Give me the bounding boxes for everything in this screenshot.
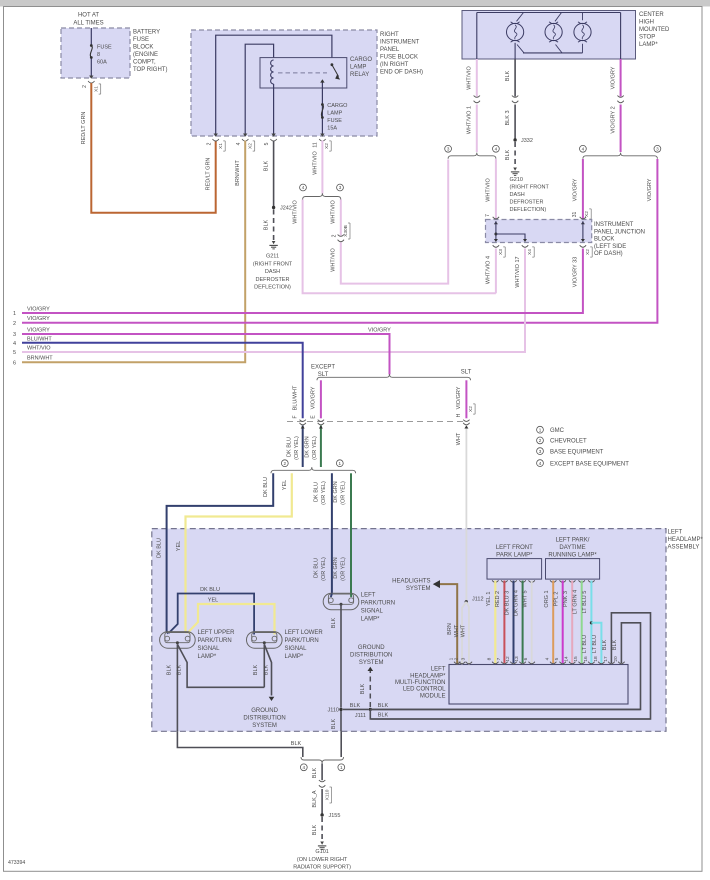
svg-text:HEADLAMP*: HEADLAMP* xyxy=(410,673,446,679)
svg-text:DISTRIBUTION: DISTRIBUTION xyxy=(243,716,285,722)
wire WHT/VIO below conn xyxy=(476,105,478,153)
split brace CHMSL VIO/GRY xyxy=(583,153,658,159)
junction J155 xyxy=(320,813,340,819)
wire RED/LT GRN xyxy=(91,83,215,213)
label BLK dashed gds xyxy=(360,683,366,694)
svg-text:LEFT: LEFT xyxy=(361,593,376,599)
svg-text:1: 1 xyxy=(340,765,343,770)
label DK GRN (OR YEL) xyxy=(305,436,318,460)
svg-text:BLK: BLK xyxy=(166,664,172,675)
svg-text:(RIGHT FRONT: (RIGHT FRONT xyxy=(510,185,550,191)
label BRN xyxy=(447,623,453,635)
label CARGO LAMP FUSE 15A xyxy=(327,103,348,132)
svg-text:X2: X2 xyxy=(468,406,474,412)
svg-text:GMC: GMC xyxy=(550,428,565,434)
label VIO/GRY row2wire xyxy=(647,178,653,201)
row 2 label VIO/GRY xyxy=(27,316,50,322)
legend 3 BASE EQUIPMENT xyxy=(537,448,604,456)
svg-text:CARGO: CARGO xyxy=(327,103,348,109)
wire DK BLU chev xyxy=(167,473,274,631)
wire BLK dashed to G211 xyxy=(273,210,275,241)
split brace pin11 xyxy=(303,193,341,199)
svg-text:X30B: X30B xyxy=(343,225,349,237)
wire DK BLU to lamp3 xyxy=(331,594,332,598)
svg-text:LT BLU 5: LT BLU 5 xyxy=(582,591,588,614)
svg-text:FUSE: FUSE xyxy=(133,37,149,43)
svg-text:3: 3 xyxy=(460,657,466,660)
pin label 2 / X1 xyxy=(82,84,101,94)
svg-text:BLK: BLK xyxy=(253,664,259,675)
svg-text:X4: X4 xyxy=(527,249,533,255)
svg-text:F: F xyxy=(293,415,299,418)
svg-text:X110: X110 xyxy=(324,789,330,800)
svg-text:RADIATOR SUPPORT): RADIATOR SUPPORT) xyxy=(293,864,351,870)
wire WHT below H xyxy=(464,426,468,602)
row 1 number xyxy=(13,311,16,317)
label LEFT UPPER PARK/TURN SIGNAL LAMP xyxy=(198,630,236,660)
wire WHT/VIO 4 from jb xyxy=(495,249,497,294)
svg-text:ALL TIMES: ALL TIMES xyxy=(73,21,103,27)
svg-text:DK BLU: DK BLU xyxy=(313,558,319,578)
svg-text:2: 2 xyxy=(331,234,337,237)
label G101 xyxy=(293,849,351,870)
label VIO/GRY H xyxy=(456,386,475,417)
svg-text:(OR YEL): (OR YEL) xyxy=(340,481,346,505)
pin 31 labels xyxy=(572,209,591,219)
label DK BLU inbox xyxy=(156,538,162,558)
label PNK 3 xyxy=(563,591,569,607)
wire LT BLU branch 18 xyxy=(591,623,601,663)
wire YEL chev xyxy=(186,473,292,631)
svg-text:BLK: BLK xyxy=(312,767,318,778)
svg-text:7: 7 xyxy=(496,657,502,660)
svg-text:(IN RIGHT: (IN RIGHT xyxy=(380,62,409,68)
svg-text:14: 14 xyxy=(564,656,570,662)
CHMSL right drop xyxy=(620,13,622,60)
svg-text:DEFROSTER: DEFROSTER xyxy=(510,200,544,206)
svg-text:INSTRUMENT: INSTRUMENT xyxy=(380,40,420,46)
svg-text:LT BLU: LT BLU xyxy=(592,635,598,653)
equip marker 3 left xyxy=(445,145,452,152)
wire BLK to X110 xyxy=(321,763,323,780)
row 4 number xyxy=(13,341,16,347)
label CENTER HIGH MOUNTED STOP LAMP xyxy=(639,12,670,48)
jb internal wire left xyxy=(494,221,497,241)
svg-text:60A: 60A xyxy=(97,60,107,66)
equip marker 3 xyxy=(337,184,344,191)
label J111 xyxy=(355,713,366,719)
label GROUND DISTRIBUTION SYSTEM module xyxy=(350,645,392,666)
wire YEL branch xyxy=(188,604,275,635)
junction LT BLU split xyxy=(590,621,593,624)
svg-text:PARK LAMP*: PARK LAMP* xyxy=(496,553,533,559)
svg-text:BLK: BLK xyxy=(378,713,389,719)
svg-text:J111: J111 xyxy=(355,713,366,719)
label LEFT HEADLAMP ASSEMBLY xyxy=(668,530,704,551)
svg-text:18: 18 xyxy=(593,656,599,662)
svg-text:FUSE: FUSE xyxy=(327,118,342,124)
label WHT/VIO 1 xyxy=(467,106,473,134)
merge brace ground xyxy=(301,757,344,763)
svg-text:DASH: DASH xyxy=(265,269,280,275)
wire PNK drl xyxy=(571,581,573,664)
row 5 number xyxy=(13,350,16,356)
bulb 2 xyxy=(545,22,562,42)
svg-text:WHT/VIO: WHT/VIO xyxy=(486,178,492,202)
park lamp pin cups xyxy=(492,580,535,582)
CHMSL top bus xyxy=(477,12,621,14)
wire VIO/GRY from CHMSL xyxy=(620,59,622,97)
wire BRN to headlights system xyxy=(433,580,457,664)
svg-text:H: H xyxy=(456,413,462,417)
wire fuse feed xyxy=(90,28,92,77)
svg-text:(OR YEL): (OR YEL) xyxy=(294,436,300,460)
svg-text:4: 4 xyxy=(545,657,551,660)
svg-text:OF DASH): OF DASH) xyxy=(594,251,623,257)
label GROUND DISTRIBUTION SYSTEM lamps xyxy=(243,708,285,729)
svg-text:DK BLU: DK BLU xyxy=(287,437,293,457)
svg-text:BLK: BLK xyxy=(602,639,608,650)
svg-text:3: 3 xyxy=(447,147,450,152)
svg-text:4: 4 xyxy=(302,185,305,190)
svg-text:VIO/GRY: VIO/GRY xyxy=(368,327,391,333)
split brace equipment xyxy=(271,467,356,473)
svg-text:YEL 1: YEL 1 xyxy=(486,592,492,607)
row 3 label VIO/GRY xyxy=(27,328,50,334)
wire VIO/GRY to junction block xyxy=(582,159,584,219)
svg-text:WHT/VIO: WHT/VIO xyxy=(331,200,337,224)
svg-text:2: 2 xyxy=(284,461,287,466)
svg-text:17: 17 xyxy=(603,656,609,662)
wire row3 VIO/GRY xyxy=(22,334,390,375)
svg-text:8: 8 xyxy=(97,52,100,58)
ground G210 xyxy=(511,168,519,176)
svg-text:VIO/GRY: VIO/GRY xyxy=(27,307,50,313)
svg-text:SLT: SLT xyxy=(461,369,472,375)
equip marker 4 gnd xyxy=(300,764,307,771)
svg-text:VIO/GRY: VIO/GRY xyxy=(27,328,50,334)
svg-text:CARGO: CARGO xyxy=(350,57,372,63)
pin 2 labels xyxy=(207,141,226,151)
svg-text:BASE EQUIPMENT: BASE EQUIPMENT xyxy=(550,449,604,455)
svg-text:HOT AT: HOT AT xyxy=(78,13,99,19)
svg-text:TOP RIGHT): TOP RIGHT) xyxy=(133,67,167,73)
svg-text:J110: J110 xyxy=(327,707,339,713)
svg-text:RIGHT: RIGHT xyxy=(380,32,399,38)
pin 7 label xyxy=(485,214,491,217)
svg-text:G101: G101 xyxy=(315,849,328,855)
svg-text:473394: 473394 xyxy=(8,860,25,866)
wire DK GRN to lamp3 xyxy=(350,594,352,598)
svg-text:LT BLU: LT BLU xyxy=(582,635,588,653)
svg-text:X2: X2 xyxy=(584,211,590,217)
label FUSE 8 60A xyxy=(97,45,112,66)
svg-text:VIO/GRY: VIO/GRY xyxy=(27,316,50,322)
svg-text:15A: 15A xyxy=(327,126,337,132)
drl pin cups xyxy=(550,580,595,582)
svg-text:4: 4 xyxy=(13,341,16,347)
svg-text:BLOCK: BLOCK xyxy=(133,45,153,51)
svg-text:3: 3 xyxy=(539,449,542,454)
connector H xyxy=(463,420,469,425)
svg-text:LAMP*: LAMP* xyxy=(198,654,217,660)
wire BLK lamp2 branch xyxy=(264,644,274,701)
svg-text:BLK: BLK xyxy=(177,664,183,675)
wire DK BLU (OR YEL) gmc xyxy=(331,473,333,593)
label BLK lower xyxy=(378,713,389,719)
jb internal branch xyxy=(496,234,525,241)
svg-text:DK BLU: DK BLU xyxy=(313,482,319,502)
connector X110 xyxy=(312,780,332,807)
connector CHMSL pin1 xyxy=(474,96,480,103)
wire BLK to J242 xyxy=(273,141,275,208)
label DK BLU (OR YEL) gmc2 xyxy=(313,557,327,581)
pin 2 exit xyxy=(213,134,219,142)
module pin numbers xyxy=(449,656,619,662)
label SLT xyxy=(461,369,472,375)
wire RED park xyxy=(503,581,505,664)
connector CHMSL pin2 xyxy=(617,96,623,103)
label BLK 3 xyxy=(505,111,511,126)
label WHT/VIO 17 xyxy=(515,256,521,287)
row 6 label BRN/WHT xyxy=(27,356,53,362)
wire BLK node to pin20 loop xyxy=(370,708,640,710)
wire BLK J110 to splice xyxy=(340,731,342,757)
left park/daytime running lamp box xyxy=(546,559,600,580)
label BLK lamp3 xyxy=(331,617,337,628)
label DK GRN 4 xyxy=(513,590,519,616)
wire LT BLU drl xyxy=(590,581,592,664)
label LT BLU 18 xyxy=(592,635,598,653)
svg-text:COMPT,: COMPT, xyxy=(133,60,156,66)
svg-text:DISTRIBUTION: DISTRIBUTION xyxy=(350,653,392,659)
svg-text:J155: J155 xyxy=(329,813,341,819)
relay switch blade xyxy=(331,63,341,79)
label LEFT PARK/ DAYTIME RUNNING LAMP xyxy=(548,538,597,559)
svg-text:DEFLECTION): DEFLECTION) xyxy=(254,285,291,291)
label DK GRN (OR YEL) gmc xyxy=(333,481,347,505)
label DK BLU 3 xyxy=(504,591,510,615)
wire DK BLU branch xyxy=(169,594,254,635)
jb internal wire right xyxy=(582,221,584,241)
wire row4 BLU/WHT xyxy=(22,343,303,419)
label WHT/VIO branch4 xyxy=(292,200,298,224)
legend 2 CHEVROLET xyxy=(537,437,587,445)
svg-text:BLK: BLK xyxy=(350,703,361,709)
right IP fuse block box xyxy=(191,30,377,136)
pin 11 labels xyxy=(313,141,332,151)
label WHT pin2 xyxy=(454,624,460,637)
label G210 xyxy=(510,177,550,213)
label LT BLU 5 xyxy=(582,591,588,614)
wire WHT to pin3 xyxy=(466,602,469,665)
pin 5 exit xyxy=(270,134,276,142)
wire WHT/VIO branch 3 upper xyxy=(340,200,342,236)
svg-text:8: 8 xyxy=(487,657,493,660)
svg-text:X2: X2 xyxy=(585,249,591,255)
svg-text:BLK_A: BLK_A xyxy=(312,790,318,807)
svg-text:BLOCK: BLOCK xyxy=(594,237,614,243)
wire VIO/GRY H xyxy=(465,380,467,418)
label INSTRUMENT PANEL JUNCTION BLOCK xyxy=(594,222,645,257)
label BLK xyxy=(264,160,270,171)
svg-text:HEADLIGHTS: HEADLIGHTS xyxy=(392,579,430,585)
svg-text:BLK: BLK xyxy=(505,70,511,81)
svg-text:BLU/WHT: BLU/WHT xyxy=(293,385,299,410)
label G211 xyxy=(253,254,293,291)
bulb 2 taps xyxy=(555,13,562,53)
legend 4 EXCEPT BASE EQUIPMENT xyxy=(537,460,630,468)
svg-text:BLK: BLK xyxy=(505,149,511,160)
svg-text:BLK: BLK xyxy=(291,741,302,747)
label VIO/GRY jb xyxy=(573,178,579,201)
svg-text:1: 1 xyxy=(539,427,542,432)
svg-text:PARK/TURN: PARK/TURN xyxy=(198,638,232,644)
svg-text:X2: X2 xyxy=(248,143,254,149)
wire WHT/VIO branch 3 lower xyxy=(341,160,448,284)
wire VIO/GRY E xyxy=(320,380,322,418)
svg-text:DK BLU: DK BLU xyxy=(200,587,220,593)
label BLK 17 xyxy=(602,639,608,650)
svg-text:RELAY: RELAY xyxy=(350,72,369,78)
label DK GRN (OR YEL) gmc2 xyxy=(333,557,347,581)
label BLK chmsl xyxy=(505,70,511,81)
svg-text:5: 5 xyxy=(13,350,16,356)
svg-text:BLK: BLK xyxy=(264,664,270,675)
instrument panel junction block box xyxy=(486,220,592,243)
bulb 1 taps xyxy=(515,13,524,60)
wire YEL to lamp1 xyxy=(186,632,187,634)
svg-text:7: 7 xyxy=(485,214,491,217)
wire pin4 to relay coil xyxy=(245,44,273,136)
svg-text:WHT/VIO 17: WHT/VIO 17 xyxy=(515,256,521,287)
wire BLK below J110 xyxy=(340,711,342,731)
label ORG 1 xyxy=(544,590,550,607)
svg-text:(RIGHT FRONT: (RIGHT FRONT xyxy=(253,261,293,267)
CHMSL left drop xyxy=(476,13,478,60)
svg-text:PANEL JUNCTION: PANEL JUNCTION xyxy=(594,229,645,235)
svg-text:ORG 1: ORG 1 xyxy=(544,590,550,607)
svg-text:LEFT UPPER: LEFT UPPER xyxy=(198,630,236,636)
svg-text:INSTRUMENT: INSTRUMENT xyxy=(594,222,634,228)
junction J110 xyxy=(327,707,342,713)
svg-text:G211: G211 xyxy=(266,254,279,260)
wire DK GRN (OR YEL) below E xyxy=(319,426,323,468)
svg-text:VIO/GRY: VIO/GRY xyxy=(311,386,317,409)
svg-text:4: 4 xyxy=(303,765,306,770)
svg-text:DEFROSTER: DEFROSTER xyxy=(256,277,290,283)
svg-text:4: 4 xyxy=(495,147,498,152)
label LEFT HEADLAMP MULTI-FUNCTION LED CONTROL MODULE xyxy=(395,667,446,700)
label RIGHT INSTRUMENT PANEL FUSE BLOCK xyxy=(380,32,423,76)
svg-text:WHT/VIO: WHT/VIO xyxy=(467,66,473,90)
svg-text:ASSEMBLY: ASSEMBLY xyxy=(668,545,700,551)
row 4 label BLU/WHT xyxy=(27,336,52,342)
svg-text:VIO/GRY: VIO/GRY xyxy=(573,178,579,201)
svg-text:YEL: YEL xyxy=(208,598,218,604)
wire BLK node to pin17 loop xyxy=(370,709,650,719)
label BLK j110 xyxy=(350,703,361,709)
CHMSL box xyxy=(462,11,636,60)
svg-text:31: 31 xyxy=(572,212,578,218)
split brace SLT xyxy=(317,374,471,380)
wire BLK dashed to G210 xyxy=(514,142,516,167)
row 6 number xyxy=(13,360,16,366)
wire WHT/VIO branch 4 xyxy=(303,200,496,294)
label LT GRN 4 xyxy=(573,590,579,614)
svg-text:BLK: BLK xyxy=(312,824,318,835)
wire J110 to J111 node xyxy=(343,708,369,710)
svg-text:RED 2: RED 2 xyxy=(495,591,501,607)
svg-text:BLK: BLK xyxy=(331,718,337,729)
svg-text:YEL: YEL xyxy=(282,480,288,490)
left park/turn signal lamp xyxy=(323,593,359,610)
jb entry pin7 xyxy=(493,217,499,224)
label VIO/GRY 33 xyxy=(573,257,579,287)
bulb 3 taps xyxy=(582,13,584,53)
label BLK lamp1 main xyxy=(166,664,172,675)
fuse F8 60A xyxy=(90,44,93,59)
label RED 2 xyxy=(495,591,501,607)
connector CHMSL pin3 xyxy=(512,96,518,103)
jb exit arrows xyxy=(494,239,585,242)
page number 473394 xyxy=(8,860,25,866)
svg-text:PARK/TURN: PARK/TURN xyxy=(361,601,395,607)
equip marker 4 xyxy=(300,184,307,191)
svg-text:G210: G210 xyxy=(510,177,523,183)
svg-text:BATTERY: BATTERY xyxy=(133,30,160,36)
svg-text:END OF DASH): END OF DASH) xyxy=(380,70,423,76)
row 2 number xyxy=(13,321,16,327)
wire WHT park xyxy=(531,581,533,664)
label RED/LT GRN left xyxy=(81,112,87,145)
label BLK below J110 xyxy=(331,718,337,729)
svg-text:LAMP*: LAMP* xyxy=(361,617,380,623)
svg-text:15: 15 xyxy=(573,656,579,662)
bulb 3 xyxy=(574,22,591,42)
relay coil xyxy=(271,60,274,84)
left upper park/turn signal lamp xyxy=(160,632,196,649)
svg-text:LED CONTROL: LED CONTROL xyxy=(403,687,446,693)
svg-text:LEFT: LEFT xyxy=(431,667,446,673)
svg-text:VIO/GRY 2: VIO/GRY 2 xyxy=(610,106,616,133)
svg-text:LEFT PARK/: LEFT PARK/ xyxy=(556,538,590,544)
svg-text:YEL: YEL xyxy=(176,541,182,551)
label DK BLU (OR YEL) xyxy=(287,436,300,460)
svg-text:1: 1 xyxy=(339,461,342,466)
wire BLK pin20 loop xyxy=(372,623,641,710)
wire BLK lamp3 xyxy=(340,604,342,707)
svg-text:PPL 2: PPL 2 xyxy=(554,592,560,607)
junction node xyxy=(369,708,372,711)
wire BRN/WHT xyxy=(22,141,245,363)
wire DK BLU to lamp1 xyxy=(167,632,169,634)
jb exit labels xyxy=(498,247,592,257)
CHMSL bottom bus xyxy=(523,52,583,54)
relay actuation dashed link xyxy=(278,72,327,74)
svg-text:3: 3 xyxy=(339,185,342,190)
svg-text:BRN/WHT: BRN/WHT xyxy=(235,160,241,186)
left lower park/turn signal lamp xyxy=(247,632,283,649)
wire YEL park xyxy=(494,581,496,664)
connector F xyxy=(300,420,306,425)
wire LT GRN drl xyxy=(581,581,583,664)
label WHT/VIO 4 xyxy=(486,256,492,284)
svg-text:PANEL: PANEL xyxy=(380,47,400,53)
label VIO/GRY xyxy=(610,66,616,89)
svg-text:SIGNAL: SIGNAL xyxy=(285,646,308,652)
svg-text:3: 3 xyxy=(656,147,659,152)
